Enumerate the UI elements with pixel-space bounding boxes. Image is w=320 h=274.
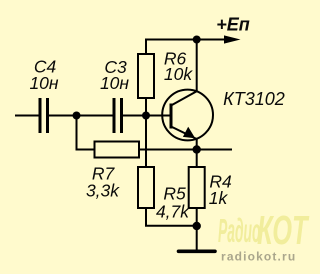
wire down to ground <box>196 226 198 250</box>
wire emitter line <box>139 149 232 151</box>
svg-text:КОТ: КОТ <box>257 208 310 254</box>
ground <box>179 250 216 254</box>
rail junction <box>193 36 201 44</box>
svg-text:radiokot.ru: radiokot.ru <box>221 250 296 264</box>
node A junction <box>73 112 81 120</box>
label R7 value <box>86 164 120 201</box>
svg-text:10н: 10н <box>29 73 58 93</box>
resistor R5 <box>138 167 154 208</box>
svg-text:4,7k: 4,7k <box>156 202 190 222</box>
label R4 value <box>209 172 232 209</box>
emitter junction <box>193 145 201 153</box>
svg-text:КТ3102: КТ3102 <box>223 89 285 109</box>
wire R4 bottom to ground junction <box>196 208 198 226</box>
svg-text:R5: R5 <box>163 184 186 204</box>
wire C3 to node B <box>123 115 146 117</box>
wire node B to transistor base <box>146 115 171 117</box>
label C4 value <box>29 57 58 94</box>
capacitor C4 <box>40 98 48 133</box>
wire input <box>15 115 39 117</box>
capacitor C3 <box>114 98 122 133</box>
resistor R6 <box>138 54 154 98</box>
emitter arrowhead <box>183 127 195 139</box>
svg-text:10н: 10н <box>100 73 129 93</box>
label C3 value <box>100 57 129 93</box>
ground junction <box>193 222 201 230</box>
label R6 value <box>164 49 194 85</box>
resistor R7 <box>95 142 140 158</box>
wire node B down to R5 <box>145 116 147 168</box>
wire R6 bottom to node B <box>145 98 147 116</box>
wire collector <box>196 40 198 92</box>
svg-text:Радио: Радио <box>218 213 260 250</box>
power rail +En <box>146 40 226 55</box>
svg-text:1k: 1k <box>209 188 229 208</box>
resistor R4 <box>189 167 205 208</box>
label R5 value <box>156 184 190 222</box>
transistor Q1 KT3102 <box>162 90 213 141</box>
watermark logo Radio KOT <box>218 208 310 254</box>
wire node A to C3 <box>77 115 113 117</box>
wire C4 to node A <box>49 115 77 117</box>
svg-text:10k: 10k <box>164 64 193 84</box>
svg-text:+Eп: +Eп <box>216 15 250 35</box>
wire R5 bottom to ground junction <box>146 208 197 226</box>
node B junction <box>142 112 150 120</box>
wire emitter down <box>196 138 198 150</box>
svg-text:3,3k: 3,3k <box>86 181 120 201</box>
wire node A down to R7 <box>77 116 95 150</box>
rail arrowhead <box>224 35 241 43</box>
wire emitter junction to R4 <box>196 150 198 168</box>
